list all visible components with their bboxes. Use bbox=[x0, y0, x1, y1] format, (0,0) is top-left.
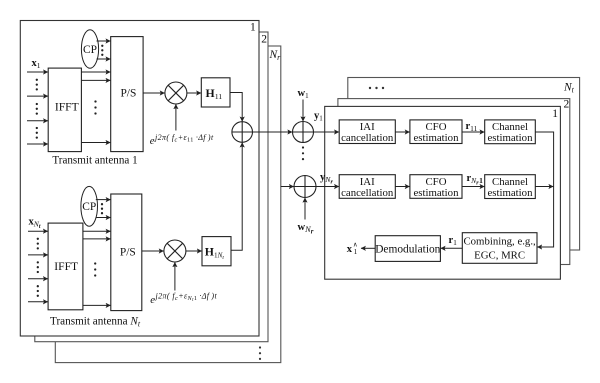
wire: A3 to IAI row2 bbox=[316, 186, 339, 188]
svg-text:1: 1 bbox=[354, 247, 358, 256]
wire: H1Nt up to adder A1 bbox=[231, 143, 242, 251]
wire: mixer Nt to H1Nt bbox=[186, 250, 202, 252]
left stack: panel 2 bbox=[35, 32, 268, 342]
CP dots 1 bbox=[101, 45, 103, 56]
wire: IAI to CFO row1 bbox=[395, 131, 409, 133]
right stack: panel 2 bbox=[338, 99, 570, 265]
wire: A2 to IAI row1 bbox=[314, 131, 339, 133]
wire: IAI to CFO row2 bbox=[395, 186, 409, 188]
wire: CFO to Channel row1 bbox=[462, 131, 484, 133]
IFFT-P/S dots 1 bbox=[94, 100, 96, 114]
wire: Demodulation to x1hat bbox=[361, 247, 375, 249]
svg-text:Combining, e.g.,: Combining, e.g., bbox=[463, 236, 536, 248]
wires: inputs into IFFT Nt bbox=[28, 231, 48, 302]
svg-text:estimation: estimation bbox=[414, 187, 460, 199]
P/S block 1 bbox=[111, 37, 143, 152]
svg-text:EGC, MRC: EGC, MRC bbox=[474, 250, 525, 262]
wire: P/S Nt to mixer Nt bbox=[142, 250, 164, 252]
adder A1 (channel sum) bbox=[232, 122, 253, 143]
CP ellipse Nt bbox=[81, 186, 98, 226]
svg-text:IFFT: IFFT bbox=[54, 260, 78, 273]
node x1hat label bbox=[347, 242, 358, 256]
svg-text:2: 2 bbox=[564, 99, 570, 111]
adder A3 (yNr) bbox=[294, 176, 316, 198]
block Combining bbox=[462, 233, 537, 264]
block IAI cancellation row1 bbox=[339, 120, 395, 144]
svg-text:1: 1 bbox=[250, 21, 256, 33]
left stack: panel 1 (front) bbox=[20, 21, 259, 337]
mixer (multiplier) Nt bbox=[164, 240, 186, 262]
block Channel estimation row1 bbox=[485, 120, 536, 144]
IFFT block Nt bbox=[48, 223, 83, 310]
wire: Nr layer into adder A3 bbox=[281, 186, 294, 188]
wire: wNr up into adder A3 bbox=[304, 198, 306, 220]
wires: CP to P/S 1 bbox=[97, 41, 111, 59]
IFFT block 1 bbox=[48, 68, 81, 152]
wire: A1 to A2 bbox=[253, 131, 293, 133]
block Channel estimation row2 bbox=[485, 175, 536, 199]
wire: H11 to adder A1 (down) bbox=[230, 93, 242, 122]
CP dots Nt bbox=[101, 203, 103, 214]
wires: IFFT to P/S 1 bbox=[81, 72, 110, 143]
left stack: panel Nr (back) bbox=[55, 46, 280, 363]
svg-text:CP: CP bbox=[82, 201, 96, 213]
svg-text:1: 1 bbox=[552, 108, 558, 120]
block CFO estimation row2 bbox=[410, 175, 462, 199]
svg-text:cancellation: cancellation bbox=[341, 132, 394, 144]
wire: P/S 1 to mixer bbox=[143, 92, 165, 94]
svg-text:2: 2 bbox=[261, 33, 267, 45]
svg-text:CP: CP bbox=[83, 44, 97, 56]
svg-text:x: x bbox=[347, 244, 353, 255]
block CFO estimation row1 bbox=[410, 120, 462, 144]
wire: Combining to Demodulation bbox=[441, 247, 463, 249]
svg-text:cancellation: cancellation bbox=[341, 187, 394, 199]
block Demodulation bbox=[375, 236, 440, 262]
adder A2 (y1) bbox=[293, 122, 314, 143]
wires: CP to P/S Nt bbox=[96, 200, 111, 218]
right stack top dots bbox=[369, 87, 384, 89]
wire: exp arrow up to mixer 1 bbox=[175, 104, 177, 130]
block H11 bbox=[201, 78, 230, 107]
wire: Channel row1 to right bus bbox=[535, 132, 553, 247]
svg-text:Transmit antenna 1: Transmit antenna 1 bbox=[52, 154, 137, 166]
input dots column Nt bbox=[37, 238, 39, 297]
svg-text:estimation: estimation bbox=[488, 187, 534, 199]
input dots column 1 bbox=[36, 79, 38, 139]
wire: Channel row2 to right bus bbox=[535, 186, 553, 188]
wire: w1 down into adder A2 bbox=[302, 100, 304, 122]
svg-text:Demodulation: Demodulation bbox=[375, 243, 440, 255]
IFFT-P/S dots Nt bbox=[94, 262, 96, 276]
svg-text:estimation: estimation bbox=[488, 132, 534, 144]
block IAI cancellation row2 bbox=[339, 175, 395, 199]
svg-text:P/S: P/S bbox=[120, 247, 136, 259]
wire: mixer 1 to H11 bbox=[187, 92, 201, 94]
svg-text:Transmit antenna Nt: Transmit antenna Nt bbox=[50, 316, 141, 329]
svg-text:P/S: P/S bbox=[120, 87, 136, 99]
wires: IFFT to P/S Nt bbox=[83, 231, 111, 305]
wire: exp arrow up to mixer Nt bbox=[174, 262, 176, 290]
block H1Nt bbox=[202, 237, 231, 266]
svg-text:IFFT: IFFT bbox=[55, 101, 79, 114]
right stack: panel Nt (back) bbox=[348, 78, 580, 251]
left stack bottom dots bbox=[259, 346, 261, 360]
CP ellipse 1 bbox=[81, 30, 98, 68]
right stack: panel 1 (front) bbox=[325, 106, 561, 279]
dots between adders bbox=[302, 146, 304, 160]
wire: CFO to Channel row2 bbox=[462, 186, 484, 188]
P/S block Nt bbox=[111, 194, 142, 311]
mixer (multiplier) 1 bbox=[165, 82, 187, 104]
svg-text:estimation: estimation bbox=[414, 132, 460, 144]
wire: inputs into IFFT 1 bbox=[27, 72, 48, 144]
